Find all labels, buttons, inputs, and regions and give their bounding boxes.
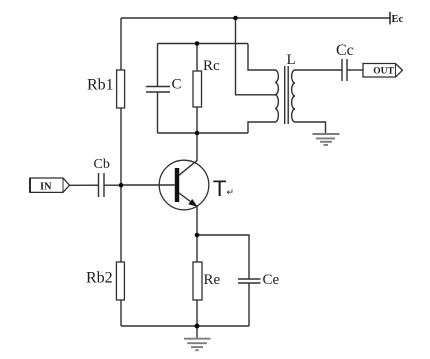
svg-text:T: T — [213, 176, 227, 201]
svg-text:IN: IN — [40, 182, 52, 193]
svg-text:Ce: Ce — [263, 272, 280, 288]
svg-text:Rb2: Rb2 — [86, 270, 113, 287]
svg-text:Re: Re — [204, 272, 221, 288]
svg-text:L: L — [287, 52, 296, 68]
svg-text:OUT: OUT — [373, 67, 394, 77]
svg-text:Cc: Cc — [336, 42, 354, 59]
svg-text:Ec: Ec — [392, 14, 404, 25]
svg-text:Rc: Rc — [203, 58, 220, 74]
svg-text:↵: ↵ — [227, 187, 235, 197]
svg-text:C: C — [172, 77, 182, 93]
svg-text:Cb: Cb — [94, 157, 110, 172]
svg-text:Rb1: Rb1 — [87, 77, 114, 94]
